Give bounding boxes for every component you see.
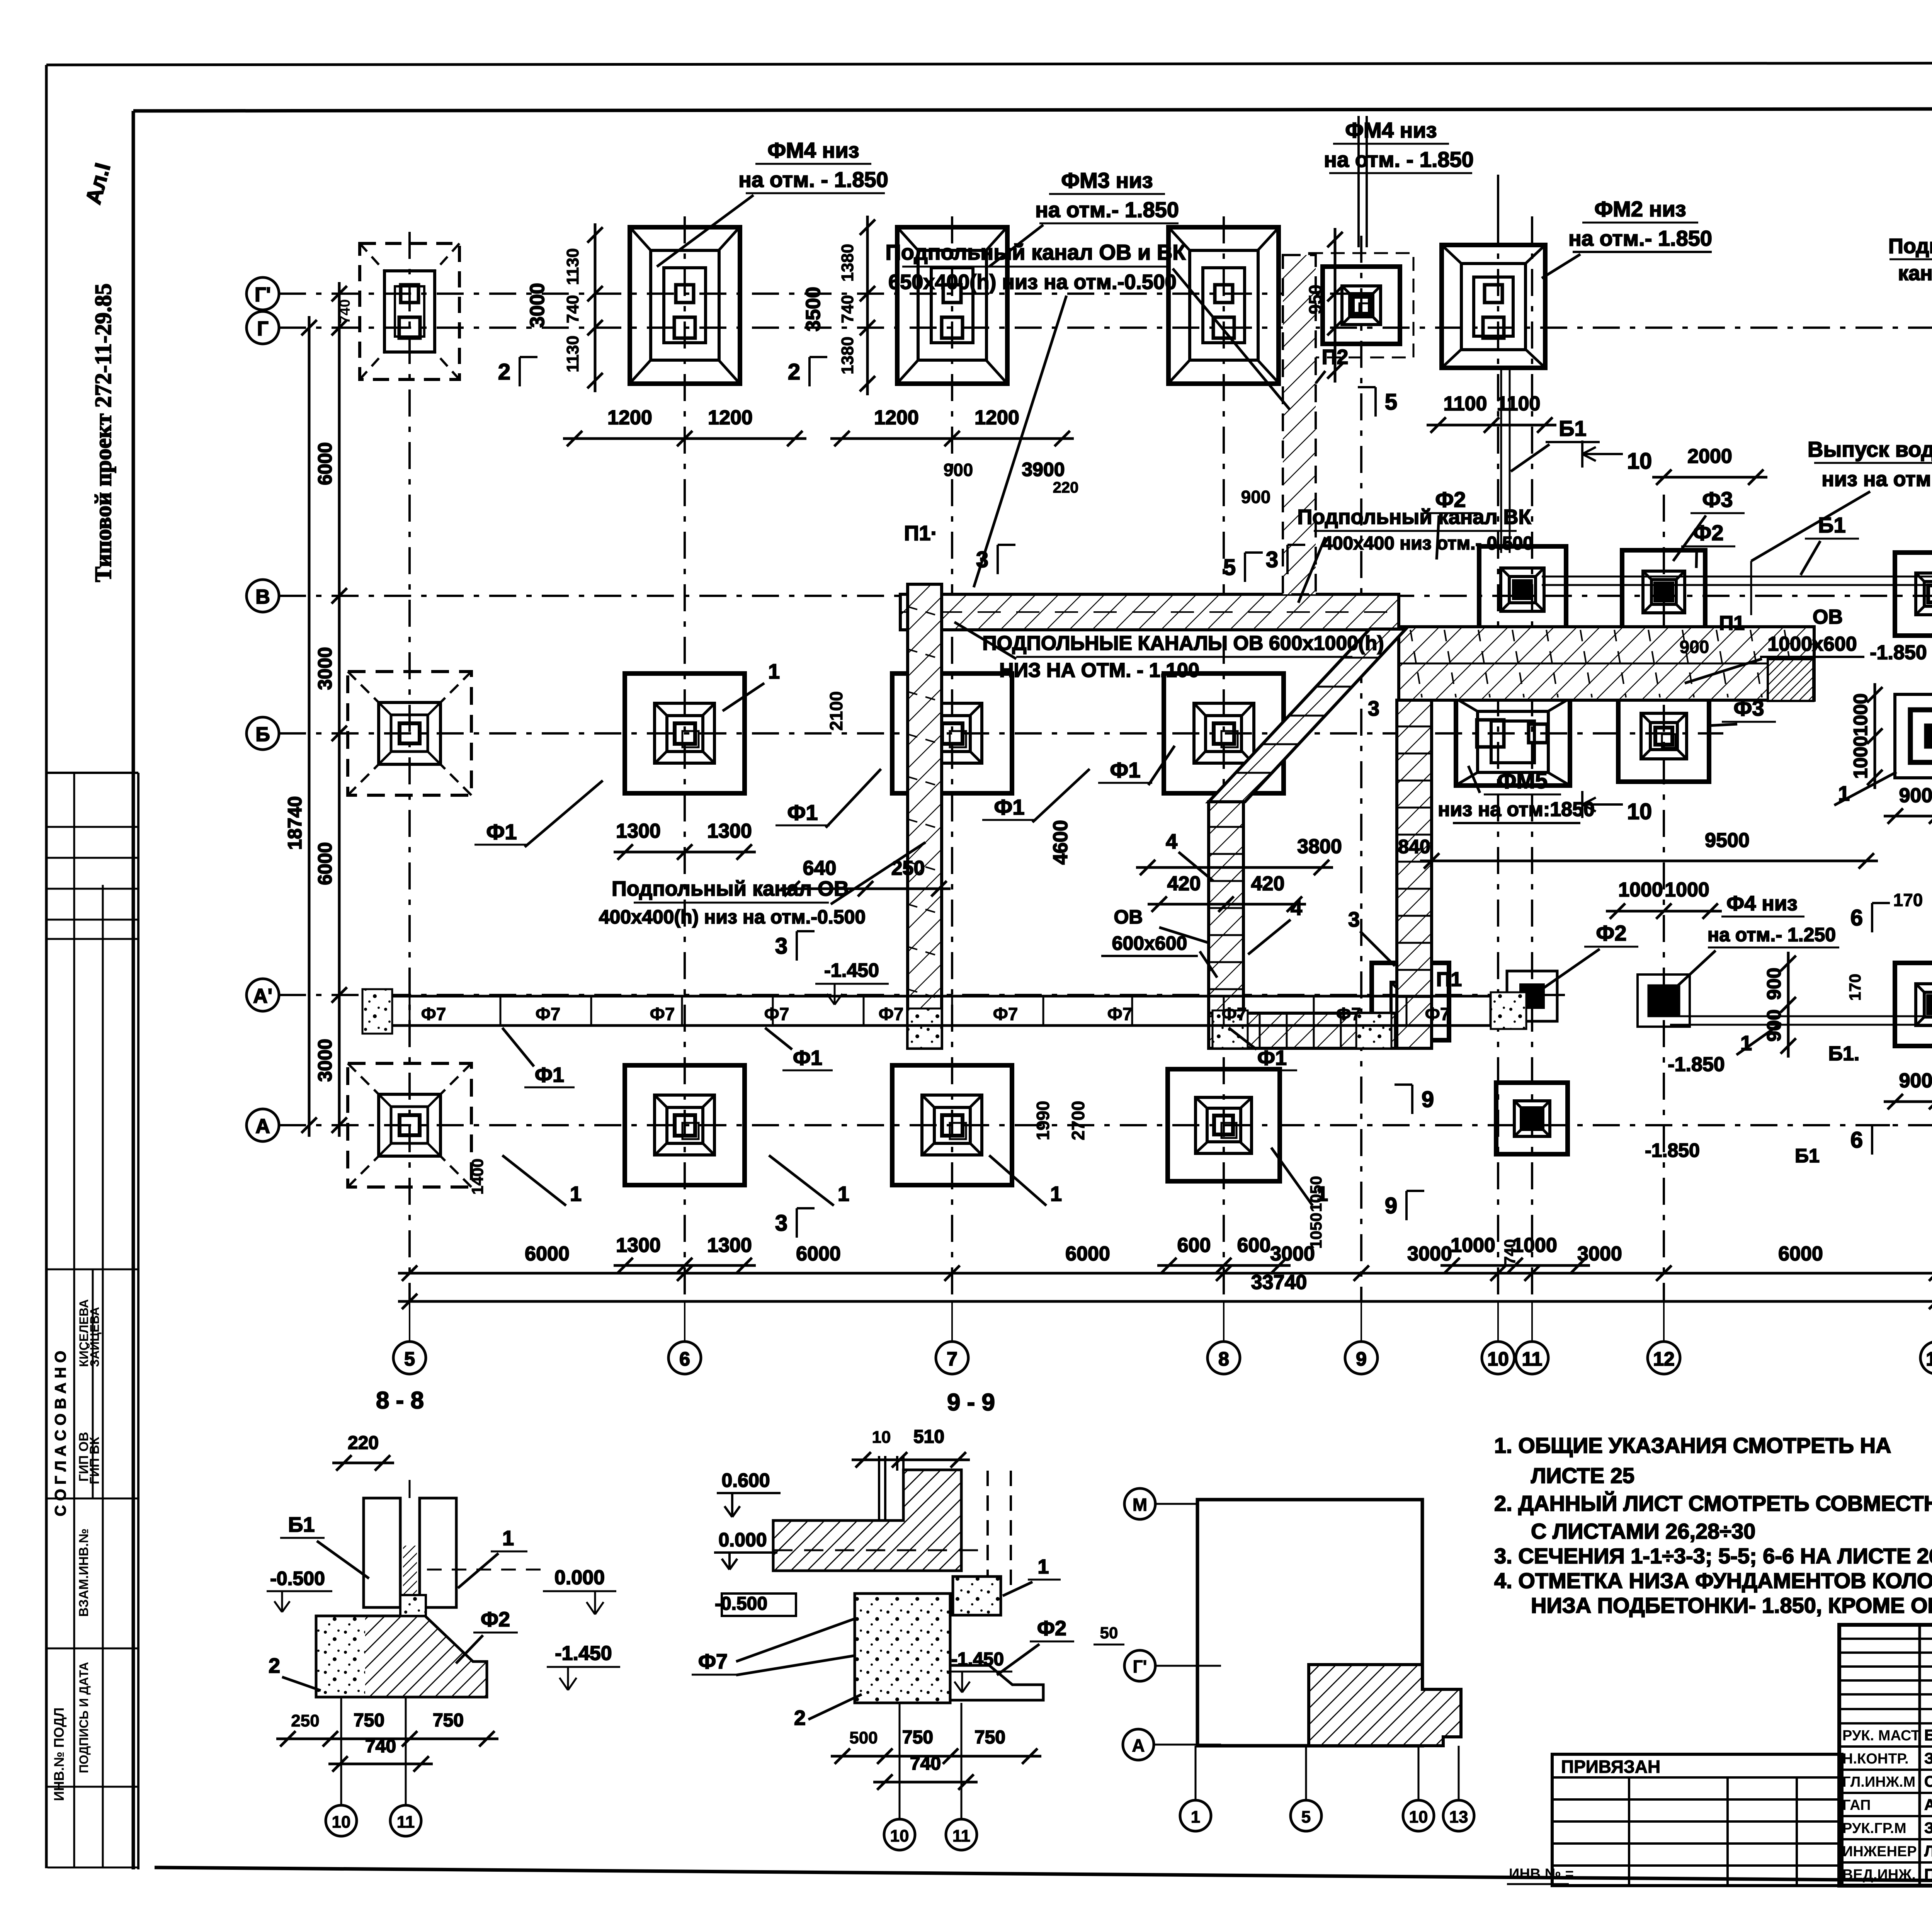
svg-text:С ЛИСТАМИ 26,28÷30: С ЛИСТАМИ 26,28÷30 — [1531, 1519, 1755, 1543]
svg-text:1000: 1000 — [1850, 736, 1871, 779]
svg-text:1: 1 — [570, 1182, 582, 1206]
svg-text:3000: 3000 — [314, 647, 336, 690]
svg-text:-0.500: -0.500 — [270, 1568, 325, 1589]
svg-text:ЗАЙЦЕВА: ЗАЙЦЕВА — [1924, 1749, 1932, 1767]
svg-text:6: 6 — [1850, 1128, 1863, 1153]
svg-text:5: 5 — [1385, 389, 1397, 415]
svg-text:АНДРАШНИКОВ: АНДРАШНИКОВ — [1924, 1796, 1932, 1813]
svg-text:ГАП: ГАП — [1842, 1797, 1871, 1813]
svg-text:950: 950 — [1305, 285, 1325, 315]
svg-text:Ф1: Ф1 — [1257, 1046, 1287, 1070]
svg-text:740: 740 — [910, 1753, 941, 1774]
svg-text:Подпольный канал ОВ: Подпольный канал ОВ — [612, 877, 849, 900]
svg-text:840: 840 — [1398, 836, 1430, 857]
svg-text:Ф3: Ф3 — [1734, 696, 1764, 720]
svg-text:БИКСОН: БИКСОН — [1924, 1727, 1932, 1744]
svg-text:низ на отм:1850: низ на отм:1850 — [1438, 798, 1595, 821]
svg-text:РУК.ГР.М: РУК.ГР.М — [1842, 1820, 1906, 1837]
svg-text:каналы ОВ: каналы ОВ — [1898, 262, 1932, 285]
svg-text:2: 2 — [794, 1706, 806, 1730]
svg-text:ФМ3 низ: ФМ3 низ — [1061, 168, 1153, 192]
svg-text:П1·: П1· — [904, 522, 938, 545]
svg-text:8: 8 — [1218, 1348, 1229, 1370]
svg-text:М: М — [1133, 1495, 1147, 1515]
svg-text:Н.КОНТР.: Н.КОНТР. — [1842, 1751, 1909, 1767]
svg-text:740: 740 — [365, 1736, 396, 1757]
svg-text:12: 12 — [1653, 1348, 1675, 1370]
svg-text:420: 420 — [1167, 872, 1201, 895]
svg-text:С О Г Л А С О В А Н О: С О Г Л А С О В А Н О — [52, 1351, 69, 1517]
svg-text:1100: 1100 — [1497, 393, 1541, 415]
svg-text:Ф1: Ф1 — [486, 820, 517, 844]
svg-text:-1.850: -1.850 — [1668, 1053, 1725, 1076]
svg-text:Подпольный канал ОВ и ВК: Подпольный канал ОВ и ВК — [886, 240, 1186, 264]
svg-text:900: 900 — [1241, 487, 1271, 507]
svg-text:ФМ5: ФМ5 — [1497, 768, 1548, 793]
svg-text:1200: 1200 — [708, 406, 753, 429]
svg-text:Ф2: Ф2 — [1596, 921, 1627, 945]
svg-text:750: 750 — [975, 1727, 1005, 1748]
svg-text:0.600: 0.600 — [721, 1469, 770, 1491]
svg-text:1: 1 — [768, 660, 780, 683]
svg-text:11: 11 — [397, 1813, 415, 1832]
svg-text:ЛОМОВА: ЛОМОВА — [1924, 1843, 1932, 1860]
svg-text:Б: Б — [255, 723, 270, 746]
svg-text:250: 250 — [291, 1711, 319, 1730]
svg-text:Б1: Б1 — [1559, 416, 1586, 440]
svg-text:РУК. МАСТ: РУК. МАСТ — [1842, 1728, 1920, 1744]
svg-text:900: 900 — [1899, 784, 1932, 807]
svg-text:9500: 9500 — [1705, 829, 1750, 852]
svg-text:1100: 1100 — [1444, 393, 1487, 415]
svg-text:3900: 3900 — [1022, 459, 1065, 480]
svg-text:низ на отм. - 2.300: низ на отм. - 2.300 — [1821, 468, 1932, 491]
svg-text:-1.850: -1.850 — [1645, 1139, 1700, 1161]
svg-text:6000: 6000 — [525, 1243, 570, 1265]
svg-text:1380: 1380 — [838, 337, 857, 374]
svg-text:1000: 1000 — [1665, 879, 1709, 901]
svg-text:1200: 1200 — [874, 406, 919, 429]
svg-text:3: 3 — [775, 1211, 787, 1236]
svg-text:750: 750 — [433, 1710, 464, 1731]
svg-text:5: 5 — [1301, 1808, 1311, 1827]
svg-text:0.000: 0.000 — [718, 1529, 767, 1551]
svg-text:6000: 6000 — [796, 1243, 841, 1265]
svg-text:1: 1 — [1050, 1182, 1062, 1206]
svg-text:1300: 1300 — [616, 1234, 661, 1257]
svg-text:1990: 1990 — [1033, 1101, 1053, 1140]
svg-text:1000: 1000 — [1451, 1234, 1495, 1257]
svg-text:Ф7: Ф7 — [879, 1004, 904, 1024]
svg-text:П1: П1 — [1719, 612, 1745, 634]
svg-text:ЛИСТЕ 25: ЛИСТЕ 25 — [1531, 1463, 1634, 1488]
svg-text:600: 600 — [1237, 1234, 1271, 1257]
svg-text:А: А — [255, 1115, 270, 1138]
svg-text:-1.450: -1.450 — [951, 1649, 1004, 1670]
svg-text:33740: 33740 — [1251, 1271, 1307, 1294]
svg-text:1380: 1380 — [838, 244, 857, 282]
svg-text:Ф2: Ф2 — [1693, 520, 1724, 545]
svg-text:Ф1: Ф1 — [787, 800, 818, 825]
svg-text:на отм. - 1.850: на отм. - 1.850 — [738, 167, 888, 192]
svg-text:ИНВ.№ ПОДЛ: ИНВ.№ ПОДЛ — [51, 1708, 67, 1801]
svg-text:900: 900 — [944, 460, 973, 480]
svg-text:ВЕД.ИНЖ.: ВЕД.ИНЖ. — [1842, 1867, 1916, 1883]
svg-text:6: 6 — [1850, 905, 1863, 930]
svg-text:ЗАЙЦЕВА: ЗАЙЦЕВА — [1924, 1819, 1932, 1837]
svg-text:6000: 6000 — [1065, 1243, 1110, 1265]
svg-text:1: 1 — [1038, 1556, 1049, 1578]
svg-text:3500: 3500 — [802, 287, 825, 332]
svg-text:ИНВ.№ =: ИНВ.№ = — [1509, 1866, 1574, 1882]
svg-text:Подпольный канал ВК: Подпольный канал ВК — [1297, 505, 1531, 529]
svg-text:2: 2 — [498, 359, 510, 384]
svg-text:на отм.- 1.850: на отм.- 1.850 — [1035, 197, 1179, 222]
svg-text:4600: 4600 — [1049, 820, 1072, 865]
svg-text:1: 1 — [502, 1527, 514, 1550]
svg-text:-1.450: -1.450 — [824, 959, 879, 981]
svg-text:ВЗАМ.ИНВ.№: ВЗАМ.ИНВ.№ — [77, 1529, 91, 1617]
svg-text:3800: 3800 — [1297, 835, 1342, 858]
svg-text:6000: 6000 — [314, 442, 336, 485]
svg-text:А': А' — [253, 985, 272, 1007]
svg-text:6000: 6000 — [314, 842, 336, 885]
svg-text:750: 750 — [354, 1710, 384, 1731]
svg-text:Подпольные: Подпольные — [1888, 235, 1932, 258]
svg-text:3: 3 — [1348, 908, 1360, 931]
svg-text:3000: 3000 — [314, 1039, 336, 1082]
svg-text:1300: 1300 — [707, 820, 752, 842]
svg-text:Ф1: Ф1 — [994, 795, 1025, 819]
svg-text:600х600: 600х600 — [1112, 932, 1187, 954]
svg-text:Б1: Б1 — [1795, 1145, 1820, 1167]
svg-text:3: 3 — [976, 547, 988, 572]
svg-text:1130: 1130 — [563, 248, 582, 285]
svg-text:1400: 1400 — [468, 1158, 486, 1194]
svg-text:ОВ: ОВ — [1813, 606, 1843, 628]
svg-text:Ф1: Ф1 — [793, 1046, 822, 1070]
svg-text:2: 2 — [788, 359, 800, 384]
svg-text:ФМ4 низ: ФМ4 низ — [767, 138, 859, 162]
svg-text:ЗАЙЦЕВА: ЗАЙЦЕВА — [88, 1307, 102, 1367]
svg-text:1300: 1300 — [707, 1234, 752, 1257]
svg-text:10: 10 — [872, 1428, 891, 1447]
svg-text:10: 10 — [1409, 1808, 1428, 1827]
svg-text:Ф7: Ф7 — [1336, 1004, 1361, 1024]
svg-text:П2: П2 — [1322, 345, 1349, 369]
svg-text:1000: 1000 — [1850, 693, 1871, 736]
svg-text:220: 220 — [1053, 479, 1079, 496]
svg-text:400х400 низ отм.- 0.500: 400х400 низ отм.- 0.500 — [1322, 533, 1533, 554]
svg-text:Ф3: Ф3 — [1702, 487, 1733, 512]
svg-text:11: 11 — [1522, 1348, 1543, 1370]
svg-text:Ф2: Ф2 — [1037, 1617, 1066, 1640]
svg-text:500: 500 — [849, 1728, 878, 1747]
svg-text:1200: 1200 — [607, 406, 652, 429]
svg-text:11: 11 — [952, 1827, 971, 1845]
svg-text:10: 10 — [1627, 449, 1652, 474]
svg-text:Ф1: Ф1 — [1110, 758, 1141, 782]
svg-text:Б1: Б1 — [1818, 513, 1845, 537]
svg-text:Б1.: Б1. — [1828, 1043, 1860, 1065]
svg-text:Ф7: Ф7 — [536, 1004, 561, 1024]
svg-text:Типовой проект 272-11-29.85: Типовой проект 272-11-29.85 — [90, 284, 116, 582]
svg-text:5: 5 — [1223, 555, 1236, 580]
svg-text:2. ДАННЫЙ ЛИСТ СМОТРЕТЬ СОВ: 2. ДАННЫЙ ЛИСТ СМОТРЕТЬ СОВМЕСТНО — [1494, 1491, 1932, 1515]
svg-text:Ф7: Ф7 — [421, 1004, 446, 1024]
svg-text:650х400(h) низ на отм.-0.500: 650х400(h) низ на отм.-0.500 — [888, 270, 1177, 294]
svg-text:900: 900 — [1763, 968, 1785, 1000]
svg-text:1000: 1000 — [1512, 1234, 1557, 1257]
svg-text:1200: 1200 — [975, 406, 1019, 429]
svg-text:ФМ4 низ: ФМ4 низ — [1345, 118, 1437, 142]
svg-text:1: 1 — [1191, 1808, 1200, 1827]
svg-text:НИЗА ПОДБЕТОНКИ- 1.850, КРОМ: НИЗА ПОДБЕТОНКИ- 1.850, КРОМЕ ОГОВОРЕННЫ… — [1531, 1593, 1932, 1617]
svg-text:Г': Г' — [1133, 1656, 1147, 1677]
svg-text:900: 900 — [1899, 1070, 1932, 1092]
svg-text:420: 420 — [1251, 872, 1285, 895]
svg-text:13: 13 — [1449, 1808, 1468, 1827]
svg-text:510: 510 — [913, 1427, 944, 1447]
svg-text:740: 740 — [337, 299, 353, 323]
svg-text:2: 2 — [269, 1654, 280, 1677]
svg-text:Ф7: Ф7 — [650, 1004, 675, 1024]
svg-text:3000: 3000 — [526, 283, 549, 328]
svg-text:600: 600 — [1177, 1234, 1211, 1257]
svg-text:на отм. - 1.850: на отм. - 1.850 — [1324, 147, 1474, 172]
svg-text:1: 1 — [1316, 1182, 1328, 1206]
svg-text:740: 740 — [563, 295, 582, 323]
svg-text:3. СЕЧЕНИЯ 1-1÷3-3; 5-5; 6-6: 3. СЕЧЕНИЯ 1-1÷3-3; 5-5; 6-6 НА ЛИСТЕ 26 — [1494, 1544, 1932, 1568]
svg-text:3000: 3000 — [1407, 1243, 1452, 1265]
svg-text:ПРИВЯЗАН: ПРИВЯЗАН — [1561, 1757, 1660, 1777]
svg-text:1130: 1130 — [563, 335, 582, 372]
svg-text:9: 9 — [1422, 1087, 1434, 1112]
svg-text:740: 740 — [838, 295, 857, 323]
svg-text:САМОВЕР: САМОВЕР — [1924, 1773, 1932, 1790]
svg-text:2000: 2000 — [1687, 445, 1732, 468]
svg-text:4: 4 — [1291, 896, 1302, 920]
svg-text:ГИП ВК: ГИП ВК — [87, 1437, 102, 1484]
svg-text:750: 750 — [902, 1727, 933, 1748]
svg-text:1000: 1000 — [1618, 879, 1663, 901]
svg-text:на отм.- 1.850: на отм.- 1.850 — [1568, 226, 1712, 250]
svg-text:900: 900 — [1763, 1009, 1785, 1041]
svg-text:Ф7: Ф7 — [1107, 1004, 1133, 1024]
svg-text:2100: 2100 — [826, 691, 846, 731]
svg-text:6000: 6000 — [1778, 1243, 1823, 1265]
svg-text:400х400(h) низ на отм.-0.500: 400х400(h) низ на отм.-0.500 — [599, 906, 866, 928]
svg-text:220: 220 — [348, 1433, 379, 1453]
svg-text:3: 3 — [1266, 547, 1278, 572]
svg-text:Ф2: Ф2 — [481, 1608, 510, 1631]
svg-text:4. ОТМЕТКА НИЗА ФУНДАМЕНТОВ: 4. ОТМЕТКА НИЗА ФУНДАМЕНТОВ КОЛОННЫ - 1.… — [1494, 1568, 1932, 1593]
svg-text:ФМ2 низ: ФМ2 низ — [1594, 197, 1686, 221]
svg-text:Ф7: Ф7 — [993, 1004, 1018, 1024]
svg-text:13: 13 — [1926, 1348, 1932, 1370]
svg-text:9 - 9: 9 - 9 — [947, 1389, 995, 1416]
svg-text:Ф2: Ф2 — [1435, 487, 1466, 512]
svg-text:7: 7 — [947, 1348, 957, 1370]
svg-text:5: 5 — [404, 1348, 415, 1370]
svg-text:Выпуск водостока: Выпуск водостока — [1808, 437, 1932, 461]
svg-text:1300: 1300 — [616, 820, 661, 842]
svg-text:170: 170 — [1893, 890, 1923, 910]
svg-text:3: 3 — [775, 934, 787, 959]
svg-text:900: 900 — [1680, 637, 1709, 657]
svg-text:Ф7: Ф7 — [764, 1004, 789, 1024]
svg-text:1: 1 — [838, 1182, 849, 1206]
svg-text:18740: 18740 — [284, 796, 306, 850]
svg-text:Ф7: Ф7 — [698, 1650, 728, 1673]
svg-text:ПАРФЕНОВА: ПАРФЕНОВА — [1924, 1866, 1932, 1883]
svg-text:640: 640 — [803, 857, 837, 879]
svg-text:Г': Г' — [255, 284, 271, 306]
svg-text:Ф7: Ф7 — [1425, 1004, 1450, 1024]
svg-text:-1.450: -1.450 — [555, 1642, 612, 1665]
svg-text:Г: Г — [257, 318, 268, 340]
svg-text:10: 10 — [332, 1813, 351, 1832]
svg-text:Ф1: Ф1 — [535, 1063, 564, 1087]
svg-text:4: 4 — [1166, 830, 1177, 853]
svg-text:ПОДПОЛЬНЫЕ КАНАЛЫ ОВ 600х1000(: ПОДПОЛЬНЫЕ КАНАЛЫ ОВ 600х1000(h) — [982, 632, 1384, 655]
svg-text:1000х600: 1000х600 — [1767, 633, 1857, 655]
svg-text:П1: П1 — [1436, 968, 1462, 991]
svg-text:50: 50 — [1100, 1624, 1118, 1642]
svg-text:1050: 1050 — [1307, 1213, 1325, 1248]
svg-text:3: 3 — [1368, 697, 1379, 720]
svg-text:ПОДПИСЬ И ДАТА: ПОДПИСЬ И ДАТА — [77, 1662, 91, 1773]
svg-text:-1.850: -1.850 — [1870, 641, 1927, 664]
svg-text:на отм.- 1.250: на отм.- 1.250 — [1708, 924, 1836, 946]
svg-text:ИНЖЕНЕР: ИНЖЕНЕР — [1842, 1844, 1917, 1860]
svg-text:10: 10 — [1627, 799, 1652, 824]
svg-text:Ф4 низ: Ф4 низ — [1726, 892, 1798, 915]
svg-text:10: 10 — [1487, 1348, 1509, 1370]
svg-text:А: А — [1132, 1735, 1145, 1755]
svg-text:В: В — [255, 586, 270, 608]
svg-text:Ф7: Ф7 — [1222, 1004, 1247, 1024]
svg-text:НИЗ НА ОТМ. - 1.100: НИЗ НА ОТМ. - 1.100 — [999, 659, 1199, 682]
svg-text:Б1: Б1 — [288, 1513, 315, 1536]
svg-text:ГЛ.ИНЖ.М: ГЛ.ИНЖ.М — [1842, 1774, 1915, 1790]
svg-text:2700: 2700 — [1068, 1101, 1088, 1140]
svg-text:1. ОБЩИЕ УКАЗАНИЯ СМОТРЕТЬ: 1. ОБЩИЕ УКАЗАНИЯ СМОТРЕТЬ НА — [1494, 1433, 1891, 1458]
svg-text:170: 170 — [1846, 974, 1864, 1001]
svg-text:6: 6 — [679, 1348, 690, 1370]
svg-text:ОВ: ОВ — [1114, 906, 1143, 928]
svg-text:9: 9 — [1385, 1193, 1397, 1218]
svg-text:10: 10 — [890, 1827, 909, 1845]
svg-text:8 - 8: 8 - 8 — [376, 1387, 424, 1414]
svg-text:0.000: 0.000 — [554, 1566, 605, 1589]
svg-text:9: 9 — [1356, 1348, 1367, 1370]
